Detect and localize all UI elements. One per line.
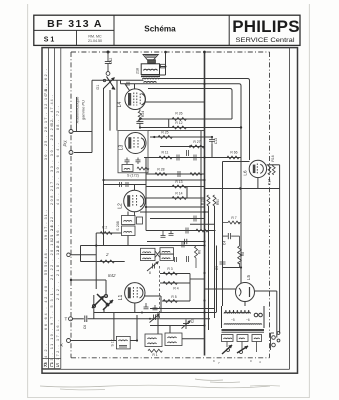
svg-text:R 28: R 28 [157, 168, 164, 172]
voltage selector arrows [222, 345, 248, 354]
svg-text:R 27: R 27 [193, 140, 200, 144]
wire y118 [140, 118, 232, 120]
wire vertical x117 [116, 80, 118, 130]
capacitor C4 series [223, 233, 240, 239]
svg-text:66.64.- 42.40.-: 66.64.- 42.40.- [44, 279, 48, 330]
svg-text:~5: ~5 [231, 318, 235, 322]
svg-text:44.- 32.- 30.- 6.4.-: 44.- 32.- 30.- 6.4.- [56, 142, 60, 205]
svg-text:L5: L5 [246, 275, 251, 281]
wire PU loop horizontal [74, 152, 92, 154]
wire y289 [205, 288, 236, 290]
wire L2 top stub [134, 185, 136, 191]
wire x93 band switch [93, 295, 95, 319]
wire y291 L5 right [255, 290, 277, 292]
wire y280 from PU ground [71, 279, 106, 281]
svg-text:PHILIPS: PHILIPS [232, 17, 300, 36]
svg-text:S 17: S 17 [111, 339, 115, 346]
svg-text:242.- 218.- 208.-: 242.- 218.- 208.- [56, 233, 60, 300]
resistor y301 [163, 300, 177, 303]
schematic inner border bottom [42, 368, 290, 370]
wire x158 [157, 313, 159, 334]
wire y325 [150, 325, 205, 327]
wire y102 [146, 101, 205, 103]
wire y198 [146, 197, 205, 199]
svg-text:R 2: R 2 [102, 226, 107, 230]
svg-text:13.- 11.10.- 9.7.- 5.3.1.-: 13.- 11.10.- 9.7.- 5.3.1.- [50, 287, 54, 364]
wire y157 [144, 157, 241, 159]
resistor R17 vertical [272, 165, 275, 175]
wire vertical x103 [103, 88, 105, 246]
wire y233 avc [96, 232, 121, 234]
svg-text:C12: C12 [109, 58, 113, 65]
series cap on y241 [185, 239, 187, 244]
wire PU upper lead [73, 97, 92, 132]
capacitor C6 on T line [85, 316, 87, 323]
mains switch bank [222, 335, 262, 342]
svg-text:Schéma: Schéma [144, 25, 176, 34]
resistor R27 [190, 145, 204, 148]
wire vertical x165 speaker feed [165, 52, 167, 75]
antenna coil box on A line [116, 336, 130, 349]
svg-text:C2: C2 [191, 319, 195, 323]
faint pencil smudge bottom [40, 379, 280, 390]
resistor under L3 [137, 167, 149, 170]
wire x279 down [279, 189, 281, 334]
terminal circle [106, 72, 110, 76]
wire vertical x216 [216, 246, 218, 313]
wire x146 stage link [145, 158, 147, 231]
resistor R25 [158, 136, 172, 139]
wire y338 osc out [182, 338, 205, 340]
svg-text:30.- 25.- 20.17.- 12.10.8.-: 30.- 25.- 20.17.- 12.10.8.- [44, 83, 48, 160]
svg-text:R: R [44, 363, 48, 369]
wire y300 [162, 300, 190, 302]
svg-text:8: 8 [149, 271, 151, 275]
tube L5 [236, 283, 255, 302]
wire HT bus vertical [204, 52, 206, 356]
wire L6 box right [279, 165, 281, 189]
wire x120 stub [120, 80, 122, 84]
svg-text:S 208: S 208 [116, 221, 120, 230]
wire y137 [150, 136, 212, 138]
wire vertical x222 [222, 162, 224, 307]
L1 pin caps [144, 303, 158, 310]
svg-text:C13: C13 [214, 138, 218, 144]
wire L1 bottom stub [134, 303, 136, 313]
resistor R26 [172, 118, 186, 121]
wire y241 [147, 241, 205, 243]
wire y261 [81, 261, 125, 263]
wire y245 [81, 245, 205, 247]
svg-text:R 4: R 4 [173, 287, 178, 291]
wire vertical x208 [208, 206, 210, 330]
caps y218 [186, 216, 196, 234]
svg-text:C6: C6 [83, 325, 87, 329]
wire y230 [146, 230, 216, 232]
cap C16 [169, 231, 174, 236]
wire x161 L1 box [160, 296, 162, 313]
wire x170 [169, 326, 171, 334]
svg-text:RM. MC: RM. MC [88, 35, 102, 39]
resistor R66 [227, 156, 239, 159]
tube L4 [125, 84, 146, 111]
wire x96 avc drop [95, 233, 97, 289]
svg-text:R 3: R 3 [167, 267, 172, 271]
resistor R8 vertical [195, 246, 198, 258]
svg-text:T: T [65, 317, 68, 322]
svg-text:S 1: S 1 [44, 37, 55, 44]
wire y186 [146, 186, 205, 188]
mains connector [271, 332, 280, 350]
wire y146 [160, 146, 205, 148]
wire y127 [140, 127, 241, 129]
terminal on dash border y255 [67, 253, 71, 257]
wire A line cont [130, 340, 137, 342]
terminal PU upper [69, 130, 73, 134]
wire y282 [160, 282, 190, 284]
schematic inner border right [289, 48, 291, 370]
wire y312 [94, 312, 217, 314]
svg-text:39.37.- 31.-: 39.37.- 31.- [44, 209, 48, 240]
wire x187 link [186, 187, 188, 199]
wire vertical x92 [91, 80, 93, 152]
svg-text:R6: R6 [198, 250, 202, 254]
capacitor C13 [209, 137, 215, 144]
output transformer S218 [141, 64, 160, 83]
svg-text:218: 218 [136, 68, 140, 74]
wire x80 drop [80, 246, 82, 262]
wire y207 [146, 206, 205, 208]
svg-text:BF 313 A: BF 313 A [47, 18, 103, 30]
svg-text:gamme PU: gamme PU [81, 100, 86, 120]
svg-text:C4: C4 [223, 241, 227, 245]
svg-text:88.- 72.-: 88.- 72.- [56, 105, 60, 130]
svg-text:R 13: R 13 [175, 180, 182, 184]
resistor y283 [163, 282, 177, 285]
wire y218 [150, 218, 205, 220]
svg-text:L2: L2 [118, 203, 124, 209]
wire y273 [160, 273, 190, 275]
wire A line [71, 340, 117, 342]
wire y188 L6 box bottom [205, 188, 280, 190]
svg-text:L3: L3 [119, 145, 125, 151]
wire L4 grid line [92, 79, 144, 81]
wire y212 [140, 211, 209, 213]
resistor R24 vertical [138, 111, 141, 121]
switch wiper arrows [103, 77, 115, 90]
loudspeaker [143, 55, 158, 64]
terminal PU lower [69, 151, 73, 155]
svg-text:S (172): S (172) [127, 174, 139, 178]
header table frame [34, 15, 300, 45]
terminal T [69, 317, 73, 321]
cap C10 [161, 231, 166, 238]
svg-text:R 26: R 26 [175, 112, 182, 116]
wire from L3 box to bus [148, 130, 205, 132]
schematic outer border [42, 48, 298, 374]
transformer pin labels [213, 359, 261, 365]
wire y255 left [71, 254, 96, 256]
resistor y230 [196, 229, 208, 232]
wire x276 down [276, 291, 278, 338]
wire vertical x110 [109, 90, 111, 131]
wire L1 anode [145, 295, 161, 297]
svg-text:R 12: R 12 [175, 121, 182, 125]
wire x137 [136, 315, 138, 341]
svg-text:PU.: PU. [63, 140, 68, 147]
svg-text:842: 842 [108, 273, 116, 278]
svg-text:R 11: R 11 [162, 151, 169, 155]
caps y157 [177, 150, 196, 161]
wire y308 [150, 308, 215, 310]
transformer core bars [222, 329, 265, 331]
svg-text:D1: D1 [96, 85, 100, 90]
wire switch stub [103, 308, 105, 313]
variable cap tuning #2 [150, 314, 160, 323]
wire L cathode to L5 [121, 84, 242, 283]
svg-text:R15: R15 [201, 199, 205, 205]
wire x128 L2 to IF [127, 212, 129, 216]
capacitor below R24 [136, 121, 143, 127]
resistor y198 [172, 197, 186, 200]
resistor vertical x208 [207, 195, 210, 206]
svg-text:R24: R24 [141, 111, 145, 117]
svg-text:R16: R16 [271, 155, 275, 161]
wire y161 L6 feed [223, 161, 250, 163]
wire L screen [148, 89, 232, 120]
svg-text:C: C [50, 363, 54, 369]
svg-text:SERVICE Central: SERVICE Central [236, 37, 296, 44]
variable cap of S242 with trimmer arrow [147, 262, 159, 272]
svg-text:208.217.- 33.- 30.- 28.26.-: 208.217.- 33.- 30.- 28.26.- [50, 118, 54, 205]
capacitor C9 [220, 262, 226, 264]
svg-text:R60: R60 [216, 199, 220, 205]
grid capacitor on L4 line [127, 82, 129, 86]
svg-text:L4: L4 [117, 102, 123, 108]
capacitor C12 [105, 52, 111, 72]
wire L6 anode [267, 164, 280, 166]
resistor row y174 [155, 173, 167, 176]
wire y224 [190, 223, 215, 225]
resistor AVC [100, 232, 112, 235]
tube L3 [125, 133, 146, 154]
stage box L3 [118, 131, 148, 173]
svg-text:Radio/Musique: Radio/Musique [75, 96, 80, 123]
svg-text:L1: L1 [118, 295, 124, 301]
wire vertical x212 mid [211, 144, 213, 158]
svg-text:21.04.50: 21.04.50 [88, 39, 102, 43]
svg-text:2: 2 [105, 252, 109, 257]
wire T terminal lead [73, 318, 84, 320]
wire y315 T line [88, 318, 210, 320]
wire x113 [113, 313, 115, 341]
wire x201 link [200, 131, 202, 231]
caps cluster right of S242 [175, 242, 189, 263]
wire L6 cathode [257, 178, 259, 189]
tube L2 [124, 190, 146, 215]
svg-text:R 5: R 5 [171, 295, 176, 299]
dash-dot chassis border [71, 52, 270, 358]
resistor R7 [228, 221, 240, 224]
wire x106 to band switch [105, 280, 107, 297]
wire x245 L5 to mains transformer [244, 302, 246, 307]
svg-text:L6: L6 [243, 170, 248, 176]
svg-text:R8: R8 [241, 252, 245, 256]
IF transformer under L2 [122, 216, 143, 236]
resistor y273 [163, 272, 177, 275]
wire y180 [104, 179, 205, 181]
resistor bottom left [148, 349, 162, 352]
svg-text:R 7: R 7 [231, 216, 236, 220]
selector stubs [227, 342, 257, 353]
oscillator coil boxes bottom [145, 333, 182, 347]
variable capacitor C2 [182, 320, 191, 330]
wire y174 [146, 173, 205, 175]
svg-text:R 25: R 25 [161, 131, 168, 135]
wire speaker right2 [160, 74, 166, 76]
caps in L3 stage [125, 158, 141, 165]
wire y184 [104, 184, 147, 186]
tube L6 [249, 160, 266, 177]
resistor vertical x214 [213, 195, 216, 206]
resistor R12 [172, 126, 186, 129]
wire speaker right [160, 66, 166, 68]
wire x168 link [168, 119, 170, 128]
wire L anode to L6 [158, 79, 250, 161]
svg-text:R 14: R 14 [175, 192, 182, 196]
caps left of L2 [120, 182, 129, 187]
svg-text:R 1: R 1 [152, 353, 157, 357]
svg-text:C9: C9 [215, 266, 219, 270]
coil box under L3 [122, 165, 133, 172]
svg-text:~6: ~6 [246, 318, 250, 322]
resistor row y157 left [159, 156, 172, 159]
wire y279 [190, 278, 205, 280]
svg-text:R17: R17 [268, 179, 272, 185]
terminal A [67, 339, 71, 343]
tube L1 [125, 283, 145, 303]
speaker terminal tab [161, 64, 167, 68]
wire vertical x214 [214, 206, 216, 318]
svg-text:R 66: R 66 [230, 151, 237, 155]
resistor R8 vertical [238, 246, 242, 264]
wire y267 osc [223, 267, 242, 269]
wire x190 join [189, 274, 191, 302]
resistor y186 [172, 185, 186, 188]
wire x128 below IF [127, 236, 129, 246]
tuning gang dashed link [159, 266, 161, 318]
resistor R16 vertical [268, 165, 271, 175]
